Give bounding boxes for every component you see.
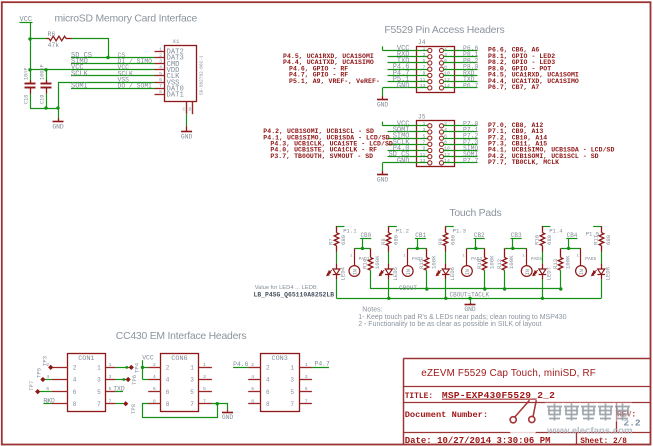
connector J5 (417, 121, 455, 167)
svg-text:13: 13 (420, 158, 426, 164)
pin 11 of J5 (428, 155, 432, 159)
pin 6 of J5 (439, 136, 443, 140)
svg-text:GND: GND (397, 82, 410, 90)
svg-text:Date: 10/27/2014 3:30:06 PM: Date: 10/27/2014 3:30:06 PM (405, 436, 551, 446)
pin 8 of X1 (155, 94, 165, 96)
pin 1 of J5 (428, 124, 432, 128)
pin 1 of CON3 (299, 367, 312, 369)
svg-text:TP5: TP5 (36, 368, 43, 378)
ground (227, 410, 229, 412)
svg-text:R7: R7 (328, 238, 335, 245)
svg-text:5: 5 (159, 71, 162, 77)
net SCLK wire (388, 144, 428, 146)
pin 5 of CON6 (199, 391, 212, 393)
net VCC wire (383, 125, 428, 127)
net GND wire (383, 87, 428, 89)
pin 6 of X1 (155, 82, 165, 84)
pin 2 of J4 (439, 48, 443, 52)
svg-text:P1.2: P1.2 (396, 228, 409, 235)
svg-text:4: 4 (166, 377, 170, 384)
svg-text:CB2: CB2 (474, 232, 485, 239)
wire LED6 to rail (445, 279, 447, 298)
net P7.7 wire (443, 162, 478, 164)
net P1.1 wire (336, 226, 345, 228)
pin 1 of CON1 (106, 367, 116, 369)
wire LED7 to rail (542, 279, 544, 298)
net SOMI wire (443, 156, 478, 158)
svg-text:IN: IN (579, 269, 585, 275)
wire (445, 252, 447, 264)
svg-text:DAT1: DAT1 (167, 92, 184, 100)
net P6.6 wire (443, 50, 478, 52)
svg-text:CB1: CB1 (415, 232, 426, 239)
junction (361, 247, 364, 250)
svg-text:GND: GND (397, 157, 410, 165)
pin 14 of J5 (439, 161, 443, 165)
svg-text:CB4: CB4 (567, 232, 578, 239)
touch pad PAD2 (407, 248, 409, 265)
svg-text:2: 2 (266, 365, 270, 372)
net SOMI wire (71, 88, 155, 90)
svg-text:GND: GND (377, 177, 389, 184)
svg-text:Touch Pads: Touch Pads (449, 208, 501, 219)
net P7.2 wire (443, 138, 478, 140)
svg-text:1: 1 (290, 365, 294, 372)
wire to ground (382, 163, 384, 171)
svg-text:8: 8 (153, 398, 156, 404)
svg-text:4: 4 (251, 374, 254, 380)
pin 6 of CON6 (148, 391, 161, 393)
svg-text:P4.6: P4.6 (233, 361, 249, 368)
svg-text:R12: R12 (496, 259, 503, 269)
svg-text:P6.7, CB7, A7: P6.7, CB7, A7 (488, 84, 539, 91)
svg-text:8: 8 (73, 401, 77, 408)
LED LED4 (336, 264, 338, 269)
svg-text:47k: 47k (48, 42, 60, 49)
junction (483, 287, 486, 290)
pin 7 of CON6 (199, 403, 212, 405)
svg-text:R14: R14 (362, 258, 369, 269)
wire pad bracket (354, 248, 370, 250)
ground (58, 108, 60, 118)
svg-text:RXD: RXD (43, 398, 55, 405)
wire R12 to rail (504, 270, 506, 289)
junction (444, 297, 447, 300)
net CB4 wire (566, 238, 577, 240)
junction (141, 366, 144, 369)
wire (601, 252, 603, 264)
svg-text:4: 4 (73, 377, 77, 384)
net SD_CS wire (388, 156, 428, 158)
svg-text:TP8: TP8 (130, 404, 137, 414)
svg-text:VCC: VCC (142, 354, 154, 361)
net TXD wire (443, 81, 478, 83)
svg-text:2 - Functionality to be as cle: 2 - Functionality to be as clear as poss… (358, 321, 541, 328)
svg-text:8: 8 (251, 398, 254, 404)
svg-text:8: 8 (159, 89, 162, 95)
svg-text:DO / SOMI: DO / SOMI (118, 83, 153, 90)
svg-text:14: 14 (444, 83, 450, 89)
pin 12 of J5 (439, 155, 443, 159)
svg-text:P1.3: P1.3 (453, 228, 466, 235)
resistor R10 (542, 226, 544, 232)
title block text (405, 368, 641, 446)
wire VCC vertical (30, 23, 32, 70)
net SOMI wire (388, 131, 428, 133)
svg-text:GND: GND (52, 124, 64, 131)
svg-text:100K: 100K (564, 255, 571, 269)
svg-text:LED6: LED6 (449, 267, 456, 280)
svg-text:7: 7 (159, 83, 162, 89)
net P8.2 wire (443, 62, 478, 64)
svg-text:C18: C18 (24, 95, 30, 104)
svg-text:10nF: 10nF (24, 68, 30, 80)
svg-text:Document Number:: Document Number: (405, 410, 488, 420)
touch pad PAD4 (526, 248, 528, 265)
svg-text:3: 3 (203, 374, 206, 380)
svg-text:7: 7 (290, 401, 294, 408)
svg-text:Value for LED4 ... LED8:: Value for LED4 ... LED8: (255, 285, 318, 291)
svg-text:CB0: CB0 (360, 232, 371, 239)
wire R6 to SD_CS net (72, 39, 109, 58)
ground (382, 96, 384, 99)
svg-text:TXD: TXD (113, 385, 125, 392)
svg-text:1: 1 (109, 362, 112, 368)
resistor R12 (504, 248, 506, 257)
junction (425, 287, 428, 290)
pin 3 of J5 (428, 130, 432, 134)
wire LED5 to rail (388, 279, 390, 298)
svg-text:TP7: TP7 (28, 381, 35, 391)
junction (511, 247, 514, 250)
watermark logo (442, 399, 541, 438)
net SIMO wire (388, 138, 428, 140)
svg-text:6: 6 (444, 58, 447, 64)
svg-text:P3.7, TB0OUTH, SVMOUT - SD: P3.7, TB0OUTH, SVMOUT - SD (270, 153, 373, 160)
connector J4 (417, 47, 455, 93)
pin 13 of J4 (428, 86, 432, 90)
LED LED5 (388, 264, 390, 269)
svg-text:100K: 100K (488, 255, 495, 269)
svg-text:Notes:: Notes: (362, 307, 382, 314)
pin 2 of X1 (155, 57, 165, 59)
net P4.7 wire (388, 75, 428, 77)
svg-text:14: 14 (444, 158, 450, 164)
svg-text:IN: IN (465, 269, 471, 275)
svg-text:680: 680 (392, 234, 399, 245)
net CB3 wire (511, 238, 522, 240)
svg-text:R8: R8 (380, 238, 387, 245)
svg-text:TP4: TP4 (133, 362, 140, 373)
svg-text:1: 1 (97, 365, 101, 372)
svg-text:2: 2 (251, 362, 254, 368)
net VCC wire (30, 69, 155, 71)
svg-text:7: 7 (190, 401, 194, 408)
svg-text:P1.4: P1.4 (549, 228, 563, 235)
wire LED8 to rail (601, 279, 603, 298)
junction (541, 297, 544, 300)
pin 5 of CON3 (299, 391, 312, 393)
net CBOUT rail wire (371, 288, 561, 290)
pin 7 of CON3 (299, 403, 312, 405)
wire pad bracket (561, 248, 581, 250)
pin 6 of CON1 (51, 391, 67, 393)
wire R13 to rail (560, 270, 562, 289)
svg-text:CBOUT: CBOUT (399, 285, 417, 292)
pin 7 of CON1 (106, 403, 116, 405)
svg-text:P6.7: P6.7 (463, 82, 479, 89)
J5 left annotations (263, 128, 393, 160)
connector CON6 (161, 354, 199, 412)
svg-text:SOMI: SOMI (71, 83, 88, 91)
svg-text:680: 680 (449, 234, 456, 245)
connector CON1 (68, 354, 106, 412)
net CB2 wire (474, 238, 485, 240)
pin 4 of X1 (155, 69, 165, 71)
svg-text:5: 5 (305, 386, 308, 392)
net P7.3 wire (443, 144, 478, 146)
net SCLK wire (71, 75, 155, 77)
svg-text:CON1: CON1 (78, 355, 94, 363)
junction (387, 297, 390, 300)
pin 3 of CON6 (199, 379, 212, 381)
net RXD wire (388, 56, 428, 58)
pin B of X1 (192, 102, 194, 115)
resistor R16 (484, 248, 486, 257)
LED LED7 (542, 264, 544, 269)
capacitor C18 (30, 70, 32, 83)
pin 5 of X1 (155, 75, 165, 77)
J4 left annotations (283, 53, 380, 85)
net SD_CS wire (71, 57, 155, 59)
svg-text:J5: J5 (418, 114, 426, 121)
svg-text:6: 6 (73, 389, 77, 396)
pin 3 of CON1 (106, 379, 116, 381)
net SIMO wire (71, 63, 155, 65)
pin 6 of J4 (439, 61, 443, 65)
pin 4 of J4 (439, 55, 443, 59)
svg-text:J4: J4 (418, 39, 426, 46)
connector CON3 (261, 354, 300, 412)
pin 10 of J5 (439, 148, 443, 152)
pin 1 of J4 (428, 48, 432, 52)
touch pad PAD1 (354, 248, 356, 265)
svg-text:R16: R16 (476, 259, 483, 269)
svg-text:GND: GND (222, 414, 234, 421)
connector X1 (165, 46, 197, 102)
pin 4 of CON3 (248, 379, 261, 381)
net TXD wire (115, 391, 123, 393)
svg-text:680: 680 (546, 234, 553, 245)
svg-text:IN: IN (353, 269, 359, 275)
net P5.1 wire (388, 81, 428, 83)
svg-text:LED8: LED8 (604, 267, 611, 280)
svg-text:LED4: LED4 (340, 266, 347, 280)
svg-text:8: 8 (166, 401, 170, 408)
pin 8 of J4 (439, 67, 443, 71)
resistor R7 (336, 226, 338, 232)
ground (382, 171, 384, 174)
net P6.7 wire (443, 87, 478, 89)
junction (28, 37, 31, 40)
svg-text:P5.1, A9, VREF-, VeREF-: P5.1, A9, VREF-, VeREF- (289, 78, 380, 85)
pin 6 of CON3 (248, 391, 261, 393)
pin 3 of CON3 (299, 379, 312, 381)
net CBOUT=TACLK rail wire (336, 298, 601, 300)
svg-text:5: 5 (109, 386, 112, 392)
pin 5 of J4 (428, 61, 432, 65)
svg-text:P7.7: P7.7 (463, 157, 479, 164)
svg-text:2: 2 (159, 52, 162, 58)
wire pad bracket (408, 248, 427, 250)
pin 12 of J4 (439, 80, 443, 84)
J5 right annotations (488, 122, 614, 166)
svg-text:3: 3 (190, 377, 194, 384)
svg-text:4: 4 (159, 65, 162, 71)
test point TP7 (35, 389, 40, 394)
test point TP3 (48, 365, 53, 370)
svg-text:PAD5: PAD5 (585, 256, 596, 262)
svg-text:R15: R15 (418, 259, 425, 269)
svg-text:6: 6 (266, 389, 270, 396)
svg-text:PAD4: PAD4 (531, 256, 542, 262)
pin 9 of J4 (428, 73, 432, 77)
junction (106, 56, 109, 59)
wire R15 to rail (426, 270, 428, 289)
svg-text:6: 6 (153, 386, 156, 392)
capacitor C19 (46, 70, 48, 83)
svg-text:1: 1 (305, 362, 308, 368)
svg-text:www.elecfans.com: www.elecfans.com (546, 426, 633, 437)
svg-text:GND: GND (181, 133, 193, 140)
net P4.6 wire (388, 69, 428, 71)
test point TP8 (115, 403, 123, 405)
wire (388, 252, 390, 264)
wire VSS riser (58, 82, 60, 108)
svg-text:100K: 100K (508, 255, 515, 269)
svg-text:C19: C19 (40, 95, 46, 104)
LED LED6 (445, 264, 447, 269)
pin 2 of CON6 (148, 367, 161, 369)
pin 5 of J5 (428, 136, 432, 140)
svg-text:5: 5 (203, 386, 206, 392)
pin 5 of CON1 (106, 391, 116, 393)
svg-text:13: 13 (420, 83, 426, 89)
watermark text (545, 403, 633, 437)
pin 14 of J4 (439, 86, 443, 90)
svg-text:5: 5 (97, 389, 101, 396)
J4 right annotations (488, 47, 579, 91)
wire LED4 to rail (336, 279, 338, 298)
svg-text:4: 4 (444, 127, 447, 133)
net SIMO wire (443, 150, 478, 152)
pin 2 of CON1 (51, 367, 67, 369)
pin 9 of J5 (428, 148, 432, 152)
wire CON6 pin8 loop (143, 404, 218, 418)
notes text (358, 307, 566, 328)
net P7.0 wire (443, 125, 478, 127)
junction (28, 68, 31, 71)
junction (474, 247, 477, 250)
svg-text:100nF: 100nF (40, 64, 46, 80)
net P1.5 wire (593, 226, 602, 228)
wire (336, 252, 338, 264)
svg-text:SD-502782-002-1: SD-502782-002-1 (200, 55, 205, 95)
net P1.2 wire (388, 226, 397, 228)
svg-text:CON3: CON3 (272, 355, 288, 363)
junction (44, 106, 47, 109)
pin 4 of CON1 (51, 379, 67, 381)
resistor R9 (445, 226, 447, 232)
ground (470, 298, 472, 302)
svg-text:3: 3 (159, 59, 162, 65)
pin 13 of J5 (428, 161, 432, 165)
pin 8 of CON1 (51, 403, 67, 405)
junction (44, 68, 47, 71)
svg-text:3: 3 (423, 127, 426, 133)
resistor R14 (370, 248, 372, 257)
net CB0 wire (360, 238, 371, 240)
svg-text:1: 1 (190, 365, 194, 372)
svg-text:680: 680 (340, 234, 347, 245)
svg-text:2: 2 (166, 365, 170, 372)
net GND wire (383, 162, 428, 164)
wire to ground (218, 404, 228, 410)
touch pad PAD5 (580, 248, 582, 265)
net VCC wire (383, 50, 428, 52)
svg-text:R10: R10 (534, 234, 541, 245)
svg-text:680: 680 (605, 234, 612, 245)
junction (503, 287, 506, 290)
svg-text:microSD Memory Card Interface: microSD Memory Card Interface (55, 13, 198, 24)
svg-text:IN: IN (406, 269, 412, 275)
net P8.1 wire (443, 56, 478, 58)
svg-text:3: 3 (305, 374, 308, 380)
net CB1 wire (415, 238, 426, 240)
pin C of X1 (186, 102, 188, 114)
ground (186, 126, 188, 131)
test point TP6 (115, 379, 126, 381)
svg-text:P1.1: P1.1 (343, 228, 357, 235)
svg-text:3: 3 (290, 377, 294, 384)
svg-text:CB3: CB3 (511, 232, 522, 239)
junction (567, 247, 570, 250)
resistor R15 (426, 248, 428, 257)
wire (542, 252, 544, 264)
svg-text:GND: GND (464, 306, 476, 313)
svg-text:IN: IN (525, 269, 531, 275)
junction (559, 287, 562, 290)
svg-text:7: 7 (305, 398, 308, 404)
net P4.0 wire (388, 150, 428, 152)
svg-text:CON6: CON6 (171, 355, 187, 363)
net P4.7 wire (312, 367, 329, 369)
svg-text:6: 6 (166, 389, 170, 396)
pin 4 of J5 (439, 130, 443, 134)
svg-text:P7.7, TB0CLK, MCLK: P7.7, TB0CLK, MCLK (488, 159, 559, 166)
svg-text:1: 1 (159, 46, 162, 52)
svg-text:R11: R11 (592, 234, 599, 245)
resistor R8 (388, 226, 390, 232)
test point TP4 (115, 367, 129, 369)
svg-text:TP6: TP6 (131, 375, 138, 385)
svg-text:CC430 EM Interface Headers: CC430 EM Interface Headers (116, 331, 247, 342)
pin 2 of J5 (439, 124, 443, 128)
wire X1 shield to ground (186, 114, 188, 127)
test point TP5 (40, 377, 45, 382)
pin 3 of J4 (428, 55, 432, 59)
pin 10 of J4 (439, 73, 443, 77)
